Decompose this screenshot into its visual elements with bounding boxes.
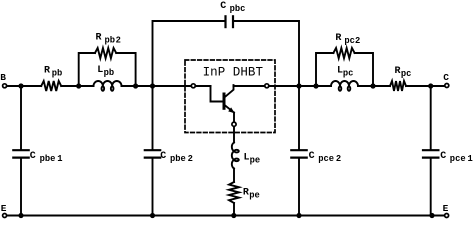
svg-text:R: R xyxy=(243,188,249,199)
wire main rail collector side xyxy=(234,85,332,87)
svg-text:R: R xyxy=(96,33,102,44)
svg-text:pce1: pce1 xyxy=(450,154,473,164)
node junction dots main rail xyxy=(18,83,433,88)
wire top rail right segment xyxy=(234,21,299,86)
label R_pc xyxy=(395,66,412,79)
label C_pce2 xyxy=(309,151,342,164)
svg-text:E: E xyxy=(443,203,449,214)
svg-text:L: L xyxy=(97,65,103,76)
terminal circle emitter of intrinsic transistor xyxy=(232,122,236,126)
terminal E left xyxy=(3,214,7,218)
capacitor C_pce2 branch xyxy=(290,86,308,216)
svg-text:pe: pe xyxy=(249,191,260,201)
resistor R_pc2 parallel branch xyxy=(316,48,373,86)
capacitor C_pbe2 branch xyxy=(144,86,162,216)
transistor Q1 emitter xyxy=(225,105,235,122)
svg-text:E: E xyxy=(1,203,7,214)
inductor L_pe xyxy=(232,143,239,169)
wire top rail left segment xyxy=(153,21,225,86)
resistor R_pe xyxy=(229,182,239,203)
wire main rail between Rpb and Lpb xyxy=(61,85,93,87)
svg-text:C: C xyxy=(30,151,36,162)
terminal E right xyxy=(445,214,449,218)
inductor L_pc xyxy=(331,81,358,91)
terminal C xyxy=(445,84,449,88)
label C_pbe2 xyxy=(160,151,193,164)
wire bottom rail xyxy=(5,215,447,217)
svg-text:pc: pc xyxy=(343,69,354,79)
label C_pbe1 xyxy=(30,151,63,164)
resistor R_pc xyxy=(390,81,406,91)
transistor Q1 collector xyxy=(225,85,234,97)
svg-text:pb: pb xyxy=(52,69,63,79)
label C_pce1 xyxy=(440,151,473,164)
resistor R_pb xyxy=(41,81,61,91)
node C xyxy=(443,72,449,83)
inductor L_pb xyxy=(94,81,122,91)
svg-text:pb2: pb2 xyxy=(105,36,121,46)
svg-text:C: C xyxy=(309,151,315,162)
label R_pb2 xyxy=(96,33,121,46)
svg-text:pbe2: pbe2 xyxy=(170,154,193,164)
wire main rail to C terminal xyxy=(406,85,447,87)
terminal circle base of intrinsic transistor xyxy=(191,84,195,88)
label InP DHBT xyxy=(203,66,264,80)
svg-text:R: R xyxy=(44,66,50,77)
svg-text:C: C xyxy=(443,72,449,83)
svg-text:R: R xyxy=(395,66,401,77)
label L_pe xyxy=(244,152,261,165)
svg-text:C: C xyxy=(440,151,446,162)
svg-text:pbc: pbc xyxy=(230,4,246,14)
label C_pbc xyxy=(220,1,245,14)
transistor Q1 base wire xyxy=(211,86,223,102)
svg-text:pe: pe xyxy=(250,155,261,165)
dashed box InP DHBT xyxy=(185,60,275,133)
svg-text:pbe1: pbe1 xyxy=(40,154,63,164)
svg-text:R: R xyxy=(335,33,341,44)
svg-text:pce2: pce2 xyxy=(318,154,341,164)
capacitor C_pbe1 branch xyxy=(12,86,30,216)
svg-text:C: C xyxy=(160,151,166,162)
label R_pb xyxy=(44,66,62,79)
wire main rail B side xyxy=(5,85,42,87)
label L_pc xyxy=(337,66,353,79)
wire main rail Lpb to transistor xyxy=(122,85,211,87)
node E right xyxy=(443,203,449,214)
terminal B xyxy=(3,84,7,88)
transistor Q1 base bar xyxy=(223,94,226,108)
wire Rpe to bottom rail xyxy=(233,203,235,216)
wire emitter to Lpe xyxy=(233,126,235,142)
node junction dots bottom rail xyxy=(18,213,434,218)
node E left xyxy=(1,203,7,214)
svg-text:C: C xyxy=(220,1,226,12)
svg-text:pc2: pc2 xyxy=(344,36,360,46)
capacitor C_pbc xyxy=(226,15,234,28)
resistor R_pb2 parallel branch xyxy=(79,48,136,86)
wire Lpe to Rpe xyxy=(233,169,235,183)
label R_pe xyxy=(243,188,260,201)
terminal circle collector of intrinsic transistor xyxy=(265,84,269,88)
svg-text:pc: pc xyxy=(401,69,412,79)
svg-text:B: B xyxy=(0,72,6,83)
svg-text:InP DHBT: InP DHBT xyxy=(203,66,264,80)
wire main rail Lpc to Rpc xyxy=(358,85,390,87)
capacitor C_pce1 branch xyxy=(422,86,440,216)
node B xyxy=(0,72,6,83)
label L_pb xyxy=(97,65,114,78)
label R_pc2 xyxy=(335,33,360,46)
svg-text:pb: pb xyxy=(104,68,115,78)
